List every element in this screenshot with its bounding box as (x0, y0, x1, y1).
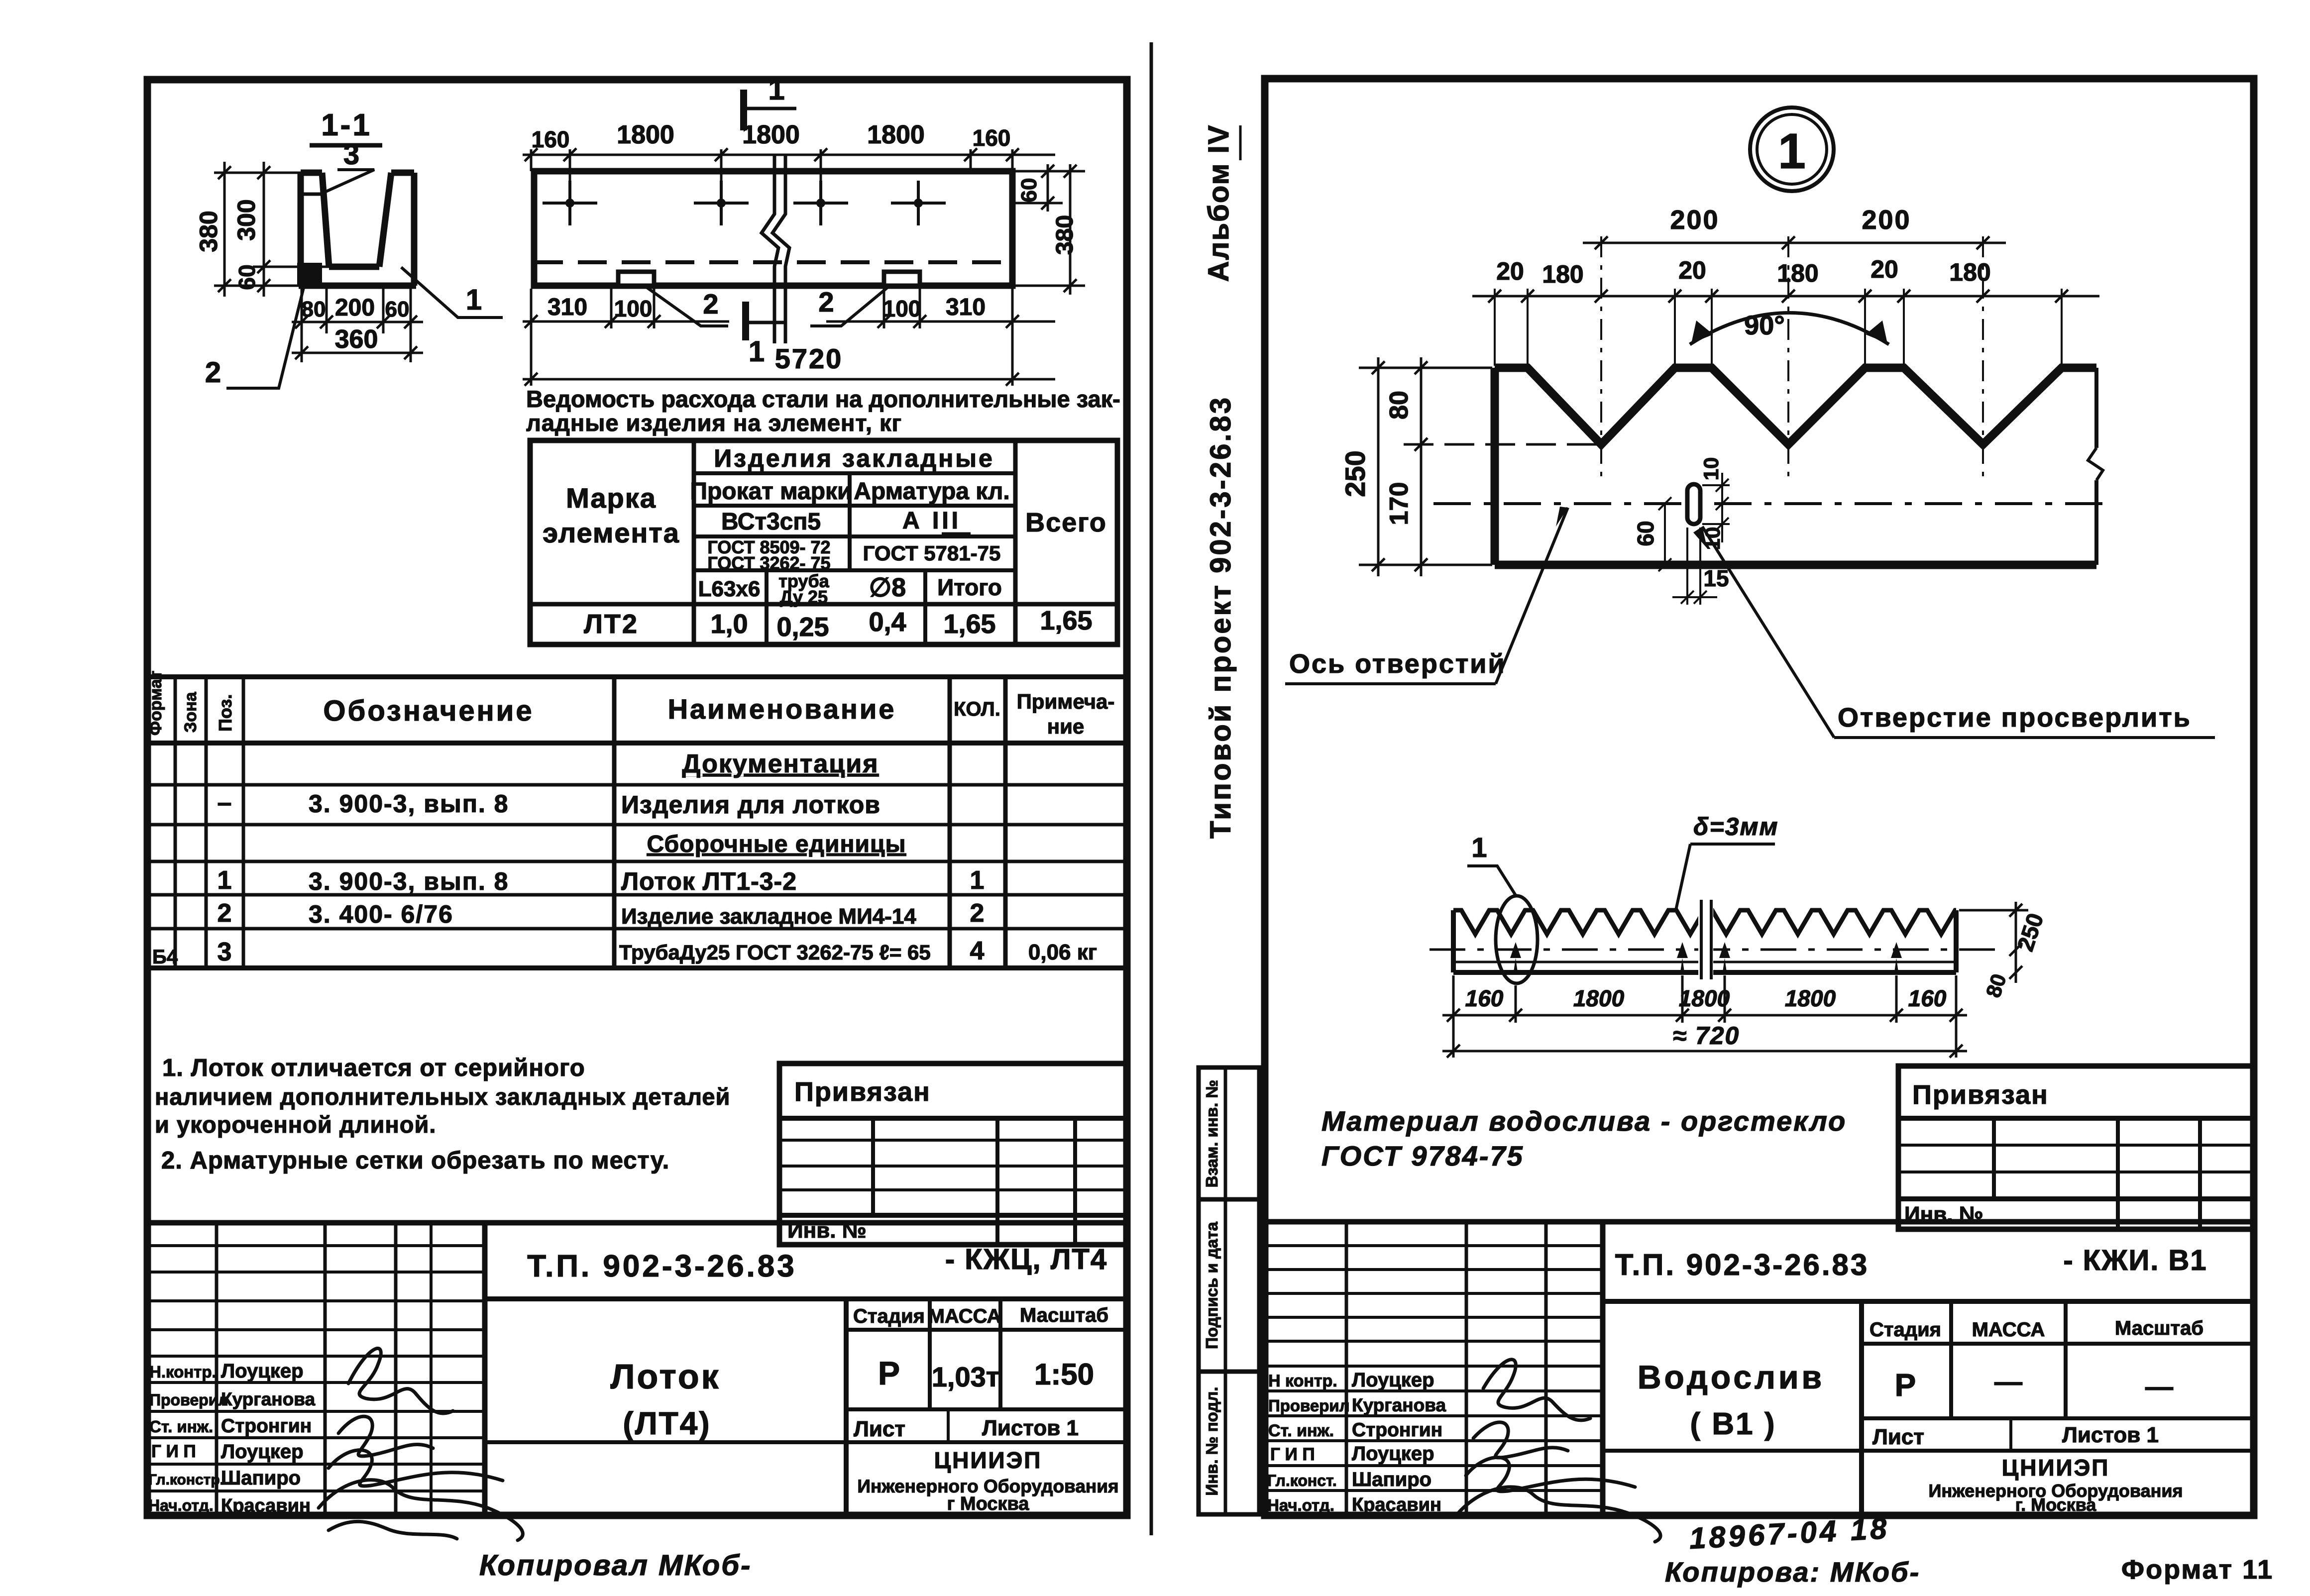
svg-text:Альбом IV: Альбом IV (1203, 124, 1235, 282)
svg-text:Итого: Итого (937, 574, 1002, 600)
svg-text:Лоуцкер: Лоуцкер (221, 1360, 304, 1382)
svg-text:2: 2 (818, 286, 834, 318)
plan center marks (543, 181, 946, 225)
svg-text:МАССА: МАССА (1972, 1319, 2045, 1341)
svg-text:Г И П: Г И П (1270, 1445, 1315, 1464)
weir profile (top drawing) (1495, 368, 2103, 565)
steel table grid (530, 440, 1117, 644)
svg-text:Курганова: Курганова (221, 1389, 315, 1409)
svg-text:( В1 ): ( В1 ) (1690, 1407, 1776, 1441)
svg-text:Р: Р (878, 1355, 900, 1391)
svg-text:L63x6: L63x6 (698, 577, 761, 601)
svg-text:- КЖИ. В1: - КЖИ. В1 (2063, 1244, 2207, 1277)
svg-text:3. 900-3, вып. 8: 3. 900-3, вып. 8 (309, 867, 509, 895)
svg-text:Подпись и дата: Подпись и дата (1203, 1222, 1221, 1349)
svg-text:- КЖЦ, ЛТ4: - КЖЦ, ЛТ4 (945, 1243, 1107, 1276)
svg-text:1:50: 1:50 (1034, 1358, 1094, 1391)
plan view rectangle (534, 171, 1012, 286)
svg-text:3: 3 (218, 938, 232, 966)
svg-text:Шапиро: Шапиро (1352, 1469, 1431, 1490)
svg-text:Материал водослива - оргстекл: Материал водослива - оргстекло (1321, 1105, 1847, 1137)
RIGHTPAGE (1199, 107, 2274, 1588)
svg-text:380: 380 (195, 211, 222, 252)
svg-text:Взам. инв. №: Взам. инв. № (1203, 1080, 1221, 1188)
svg-text:180: 180 (1949, 258, 1990, 286)
svg-text:Г И П: Г И П (151, 1442, 196, 1461)
svg-text:–: – (218, 788, 232, 817)
svg-text:Красавин: Красавин (1352, 1494, 1441, 1515)
LP-TABLES (146, 386, 1127, 1174)
svg-text:Лоток: Лоток (610, 1357, 720, 1396)
svg-text:160: 160 (1465, 985, 1504, 1011)
svg-text:10: 10 (1699, 457, 1723, 481)
svg-text:Привязан: Привязан (794, 1077, 931, 1107)
svg-text:160: 160 (532, 126, 570, 152)
svg-text:ЛТ2: ЛТ2 (584, 609, 639, 639)
callout 3 (323, 138, 374, 193)
svg-text:180: 180 (1777, 259, 1818, 287)
svg-text:200: 200 (1862, 205, 1911, 235)
svg-text:Листов 1: Листов 1 (982, 1416, 1079, 1440)
LP-TITLE (147, 1064, 1127, 1582)
section bottom dims (292, 289, 423, 362)
embedded plate (blackened corner) (297, 263, 322, 286)
svg-text:ладные изделия на элемент, кг: ладные изделия на элемент, кг (526, 410, 902, 436)
svg-text:1: 1 (749, 335, 765, 368)
privyazan box left (779, 1064, 1127, 1245)
svg-text:Изделия для лотков: Изделия для лотков (621, 791, 880, 819)
svg-text:1,03т: 1,03т (932, 1361, 999, 1392)
svg-text:∅8: ∅8 (869, 573, 906, 602)
svg-text:Примеча-: Примеча- (1017, 690, 1115, 713)
svg-text:20: 20 (1496, 257, 1524, 285)
svg-text:250: 250 (1339, 450, 1371, 497)
svg-text:1800: 1800 (617, 120, 674, 149)
svg-text:Копирова: МКоб-: Копирова: МКоб- (1665, 1556, 1920, 1588)
svg-text:г. Москва: г. Москва (2015, 1494, 2097, 1515)
svg-text:160: 160 (1908, 985, 1947, 1011)
svg-text:Ось отверстий: Ось отверстий (1289, 649, 1506, 679)
dim line 200/200 (1583, 236, 2006, 249)
right page frame (1265, 79, 2254, 1515)
svg-text:100: 100 (883, 296, 921, 321)
svg-text:3: 3 (343, 138, 359, 171)
plan right dims (1015, 164, 1085, 295)
svg-text:310: 310 (946, 294, 986, 320)
page separator (1150, 42, 1153, 1535)
spec table grid (147, 677, 1127, 968)
svg-text:60: 60 (234, 264, 260, 290)
svg-text:Нач.отд.: Нач.отд. (148, 1496, 214, 1514)
svg-text:2: 2 (205, 356, 221, 389)
svg-text:360: 360 (335, 325, 378, 354)
left page frame (147, 80, 1127, 1515)
svg-text:Масштаб: Масштаб (1020, 1304, 1108, 1326)
svg-text:2: 2 (970, 899, 985, 928)
callout 1 (401, 267, 503, 318)
svg-text:ЦНИИЭП: ЦНИИЭП (2002, 1455, 2110, 1481)
svg-text:Формат: Формат (146, 671, 165, 736)
svg-text:Красавин: Красавин (221, 1495, 311, 1516)
svg-text:—: — (1994, 1366, 2022, 1397)
svg-text:1: 1 (466, 284, 482, 316)
callout 2 (205, 284, 305, 389)
svg-text:Ст. инж.: Ст. инж. (149, 1417, 213, 1436)
svg-text:170: 170 (1385, 482, 1414, 526)
svg-text:Водослив: Водослив (1638, 1359, 1825, 1395)
svg-text:Масштаб: Масштаб (2115, 1317, 2203, 1339)
svg-text:Копировал МКоб-: Копировал МКоб- (479, 1549, 752, 1582)
svg-text:180: 180 (1542, 260, 1583, 288)
left dims of profile (1359, 357, 1598, 576)
svg-text:(ЛТ4): (ЛТ4) (623, 1405, 711, 1441)
svg-text:Ст. инж.: Ст. инж. (1268, 1421, 1334, 1440)
svg-text:Стадия: Стадия (853, 1305, 925, 1327)
svg-text:310: 310 (548, 294, 587, 320)
svg-text:1,65: 1,65 (1040, 606, 1092, 636)
svg-text:Наименование: Наименование (668, 693, 896, 725)
svg-text:ТрубаДу25 ГОСТ 3262-75 ℓ= 65: ТрубаДу25 ГОСТ 3262-75 ℓ= 65 (619, 941, 931, 964)
svg-text:Стадия: Стадия (1870, 1319, 1941, 1341)
svg-text:г Москва: г Москва (947, 1493, 1030, 1514)
plan section flag top (744, 73, 796, 130)
svg-text:1: 1 (218, 866, 232, 895)
svg-text:1800: 1800 (1573, 985, 1625, 1011)
svg-text:ВСт3сп5: ВСт3сп5 (721, 509, 821, 535)
svg-text:0,25: 0,25 (776, 612, 829, 642)
side view centerline (1430, 949, 1998, 951)
sidebar strip (1199, 1067, 1259, 1514)
svg-text:δ=3мм: δ=3мм (1693, 813, 1779, 841)
svg-text:100: 100 (614, 296, 653, 321)
svg-text:1800: 1800 (1785, 985, 1836, 1011)
90 degree arc (1690, 313, 1889, 345)
plan center break (762, 155, 778, 343)
svg-text:200: 200 (335, 295, 375, 321)
svg-text:Т.П. 902-3-26.83: Т.П. 902-3-26.83 (527, 1249, 797, 1283)
svg-text:1,0: 1,0 (710, 609, 748, 639)
svg-text:ние: ние (1047, 715, 1085, 738)
svg-text:1800: 1800 (742, 120, 800, 149)
svg-text:90°: 90° (1744, 311, 1785, 340)
svg-text:60: 60 (385, 297, 410, 321)
svg-text:Лоуцкер: Лоуцкер (221, 1441, 304, 1463)
side view center break (1698, 903, 1713, 978)
svg-text:Н контр.: Н контр. (1268, 1372, 1337, 1390)
svg-text:КОЛ.: КОЛ. (954, 698, 1000, 720)
svg-text:Стронгин: Стронгин (1352, 1419, 1442, 1441)
svg-text:Б4: Б4 (152, 946, 178, 968)
svg-text:Отверстие просверлить: Отверстие просверлить (1838, 703, 2192, 733)
svg-text:Гл.конст.: Гл.конст. (1267, 1472, 1337, 1490)
svg-text:1,65: 1,65 (943, 609, 995, 639)
svg-text:80: 80 (1385, 391, 1414, 420)
svg-text:Листов 1: Листов 1 (2062, 1423, 2159, 1447)
svg-text:Документация: Документация (682, 749, 879, 778)
svg-text:Ведомость расхода стали на доп: Ведомость расхода стали на дополнительны… (526, 386, 1120, 412)
svg-text:ГОСТ 9784-75: ГОСТ 9784-75 (1321, 1140, 1524, 1171)
svg-text:Прокат марки: Прокат марки (690, 478, 852, 505)
svg-text:элемента: элемента (543, 517, 680, 548)
svg-text:А III: А III (902, 508, 961, 534)
svg-text:Типовой проект 902-3-26.83: Типовой проект 902-3-26.83 (1205, 396, 1237, 839)
svg-text:Р: Р (1895, 1367, 1916, 1403)
svg-text:1: 1 (768, 73, 784, 106)
title block top line (147, 1223, 1127, 1515)
svg-text:Зона: Зона (181, 691, 200, 733)
hole slot (1687, 484, 1700, 524)
signatures squiggles (319, 1348, 523, 1540)
svg-text:Обозначение: Обозначение (323, 695, 534, 727)
plan embedded plates (618, 272, 654, 286)
svg-text:ГОСТ 5781-75: ГОСТ 5781-75 (863, 541, 1001, 565)
svg-text:1: 1 (970, 866, 985, 895)
svg-text:1: 1 (1471, 832, 1487, 863)
svg-text:Проверил: Проверил (1268, 1396, 1350, 1415)
svg-text:≈ 720: ≈ 720 (1673, 1022, 1740, 1050)
svg-text:Формат 11: Формат 11 (2121, 1555, 2274, 1585)
anchor arrows on centerline (1510, 942, 1902, 972)
right title block (1265, 1222, 2254, 1515)
VERTTEXT (1203, 124, 1240, 839)
hole dims (1658, 473, 1730, 605)
svg-text:Гл.констр.: Гл.констр. (148, 1472, 224, 1488)
dim line 20/180 (1472, 290, 2099, 303)
svg-text:Лоток ЛТ1-3-2: Лоток ЛТ1-3-2 (621, 867, 797, 895)
svg-text:Шапиро: Шапиро (221, 1467, 301, 1489)
svg-text:60: 60 (1017, 178, 1041, 203)
section U-channel profile (299, 173, 416, 286)
plan total dim (523, 373, 1055, 386)
svg-text:3. 400- 6/76: 3. 400- 6/76 (309, 900, 453, 928)
svg-text:ЦНИИЭП: ЦНИИЭП (934, 1447, 1042, 1473)
plan section flag bottom (746, 302, 784, 368)
svg-text:ГОСТ 3262- 75: ГОСТ 3262- 75 (707, 553, 830, 573)
section left dims (214, 162, 329, 297)
hole centerline (1433, 502, 2113, 505)
svg-text:2: 2 (218, 899, 232, 928)
svg-text:Проверил: Проверил (149, 1391, 228, 1409)
svg-text:Т.П. 902-3-26.83: Т.П. 902-3-26.83 (1615, 1248, 1870, 1281)
svg-text:Лист: Лист (1872, 1425, 1924, 1449)
svg-text:Привязан: Привязан (1912, 1080, 2049, 1110)
detail circle 1 (1750, 107, 1834, 191)
svg-text:60: 60 (1633, 521, 1658, 546)
svg-text:1800: 1800 (1679, 985, 1730, 1011)
svg-text:3. 900-3, вып. 8: 3. 900-3, вып. 8 (309, 790, 509, 818)
side view band with teeth (1453, 910, 1956, 972)
svg-text:0,4: 0,4 (869, 607, 906, 637)
right signatures squiggles (1458, 1360, 1660, 1542)
svg-text:300: 300 (232, 199, 260, 240)
valley centerlines (1601, 236, 1983, 478)
svg-text:80: 80 (302, 297, 326, 321)
side view bottom dims (1442, 975, 1967, 1058)
svg-text:15: 15 (1703, 565, 1729, 591)
svg-text:1-1: 1-1 (321, 108, 372, 142)
svg-text:Лоуцкер: Лоуцкер (1352, 1443, 1434, 1465)
svg-text:МАССА: МАССА (928, 1305, 1001, 1327)
svg-text:Курганова: Курганова (1352, 1395, 1446, 1415)
svg-text:и укороченной длиной.: и укороченной длиной. (155, 1111, 436, 1138)
svg-text:Поз.: Поз. (215, 694, 235, 732)
svg-text:Лоуцкер: Лоуцкер (1352, 1369, 1434, 1391)
svg-text:1. Лоток отличается от сери: 1. Лоток отличается от серийного (162, 1055, 585, 1081)
svg-text:Всего: Всего (1025, 508, 1107, 537)
svg-text:Изделие закладное МИ4-14: Изделие закладное МИ4-14 (621, 904, 916, 929)
svg-text:200: 200 (1670, 205, 1719, 235)
flat edge projection lines (1495, 289, 2062, 366)
svg-text:0,06 кг: 0,06 кг (1028, 940, 1097, 964)
svg-text:2. Арматурные сетки обрезать: 2. Арматурные сетки обрезать по месту. (161, 1147, 669, 1174)
plan bottom dim row1 (523, 289, 1055, 386)
svg-text:20: 20 (1870, 255, 1898, 283)
svg-text:20: 20 (1678, 256, 1706, 284)
svg-text:Инв. № подл.: Инв. № подл. (1203, 1387, 1221, 1496)
svg-text:380: 380 (1052, 215, 1078, 255)
detail balloon around tooth (1496, 896, 1538, 983)
side view right dims (1959, 902, 2028, 983)
svg-text:1: 1 (1778, 123, 1806, 179)
plan top dim (523, 148, 1055, 181)
svg-text:Лист: Лист (854, 1417, 905, 1441)
svg-text:Марка: Марка (566, 482, 657, 514)
svg-text:Арматура кл.: Арматура кл. (854, 478, 1009, 505)
privyazan box right (1898, 1066, 2254, 1229)
svg-text:Нач.отд.: Нач.отд. (1267, 1496, 1334, 1514)
section 1-1 title (310, 108, 382, 145)
svg-text:Ду 25: Ду 25 (780, 587, 828, 607)
svg-text:5720: 5720 (775, 343, 843, 374)
LEFTPAGE (195, 73, 1085, 389)
svg-text:160: 160 (973, 125, 1011, 151)
svg-text:4: 4 (970, 937, 985, 965)
svg-text:2: 2 (703, 288, 718, 319)
svg-text:1800: 1800 (867, 120, 925, 149)
svg-text:Изделия закладные: Изделия закладные (714, 444, 994, 472)
svg-text:наличием дополнительных закл: наличием дополнительных закладных детале… (155, 1083, 730, 1110)
svg-text:Стронгин: Стронгин (221, 1415, 312, 1437)
svg-text:Сборочные единицы: Сборочные единицы (647, 831, 906, 857)
svg-text:Н.контр.: Н.контр. (149, 1363, 217, 1381)
svg-text:—: — (2145, 1371, 2173, 1402)
